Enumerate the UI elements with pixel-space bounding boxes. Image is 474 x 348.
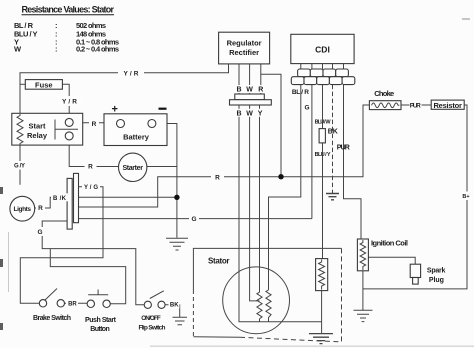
svg-text::: : [55,45,58,54]
svg-text:R: R [92,121,97,128]
svg-text:R: R [215,174,220,181]
svg-text:B+: B+ [462,194,469,200]
svg-text:Resistance Values: Stator: Resistance Values: Stator [22,5,115,15]
svg-text:Relay: Relay [27,131,48,140]
svg-text:B: B [236,87,241,94]
svg-text:BLU / W: BLU / W [315,119,332,125]
svg-text:ON/OFF: ON/OFF [141,315,161,322]
svg-text:Y / G: Y / G [84,185,98,191]
svg-text:CDI: CDI [315,45,330,55]
svg-text:Resistor: Resistor [433,101,462,110]
svg-text:Stator: Stator [208,257,230,266]
svg-text:G: G [37,229,42,236]
svg-text:Battery: Battery [123,133,150,142]
svg-text:Spark: Spark [427,267,446,274]
svg-text:BL / R: BL / R [292,89,309,96]
svg-text:Fuse: Fuse [35,80,53,89]
svg-text:Y / R: Y / R [124,70,139,77]
svg-text:Y / R: Y / R [62,99,77,106]
svg-text:Flip Switch: Flip Switch [139,325,166,332]
svg-text:G: G [304,105,309,112]
svg-text:Regulator: Regulator [227,39,262,48]
svg-text:Lights: Lights [14,206,32,213]
svg-text:BLU / Y: BLU / Y [315,152,331,158]
svg-text:Push Start: Push Start [85,317,117,324]
svg-text:W: W [14,45,22,54]
svg-text:B: B [236,110,241,117]
svg-text:Brake Switch: Brake Switch [33,315,71,322]
svg-text:BK: BK [328,129,338,136]
svg-text:Choke: Choke [374,89,394,98]
svg-text:BR: BR [68,302,77,308]
svg-text:PUR: PUR [410,103,421,110]
svg-text:PUR: PUR [337,145,350,152]
svg-text:0.2 ~ 0.4 ohms: 0.2 ~ 0.4 ohms [76,45,119,54]
svg-text:R: R [38,205,43,212]
svg-text:R: R [88,164,93,171]
svg-text:Y: Y [258,110,263,117]
svg-text:B /K: B /K [53,196,67,202]
svg-text:W: W [246,87,253,94]
svg-text:G /Y: G /Y [14,163,25,169]
svg-text:Button: Button [90,326,110,333]
svg-text:Starter: Starter [122,165,143,172]
svg-text:W: W [246,110,253,117]
svg-text:Plug: Plug [429,277,444,284]
svg-text:Start: Start [28,122,46,131]
svg-text:BK: BK [170,303,179,309]
svg-text:Rectifier: Rectifier [229,48,259,57]
svg-text:G: G [191,216,196,223]
svg-text:R: R [258,87,263,94]
svg-text:+: + [112,104,118,116]
svg-text:Ignition Coil: Ignition Coil [371,239,408,248]
